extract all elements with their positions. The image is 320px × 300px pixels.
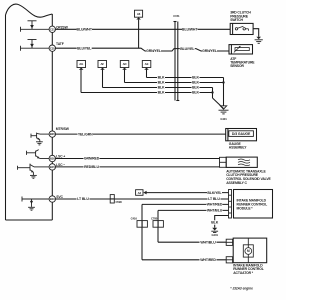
PCM left edge wire [5,15,7,220]
wire vertical ref box AE [146,69,148,77]
svg-text:C35: C35 [50,46,55,50]
svg-text:WHT/RED: WHT/RED [207,203,223,207]
junction dot row2-BLK at ground vertical [222,81,224,83]
3rd clutch pressure switch label [230,10,251,22]
ground (Q3 emitter) [30,175,37,178]
gauge assembly box [226,129,257,141]
svg-text:LSC −: LSC − [56,163,65,167]
wire diagonal to ground G101 [213,98,224,109]
svg-text:ASSEMBLY C: ASSEMBLY C [226,181,247,185]
wire BLK tap from module to G401 [215,216,229,228]
sheet reference box AF [98,61,107,70]
wire ground drop to G101 [223,78,225,106]
actuator connector pin lower [226,257,232,263]
PCM internal zener to ground (SVC) [30,199,33,207]
svg-text:AE: AE [145,62,149,66]
wire label LT BLU (right) [208,197,221,202]
wire label BLK row3 right [192,85,200,89]
svg-text:BLK: BLK [192,76,199,80]
svg-text:GRN/RED: GRN/RED [84,157,100,161]
svg-text:ACTUATOR *: ACTUATOR * [233,271,254,275]
3rd clutch pressure switch box [230,23,253,34]
svg-text:* J32A3 engine: * J32A3 engine [230,287,253,291]
svg-text:BLK: BLK [192,81,199,85]
wire label GRN/YEL (right) [202,49,218,54]
svg-text:C590: C590 [116,200,123,204]
ground G101 (solenoid grounds) [219,106,229,114]
wire label BLU/WHT (right) [182,27,198,32]
svg-text:AF: AF [100,62,104,66]
wire BLK ground row4 [81,92,213,94]
svg-text:B10: B10 [50,197,55,201]
wire 3rd clutch switch to ground [253,29,259,37]
svg-text:BLU/YEL: BLU/YEL [77,46,92,50]
wire row2 BLU/YEL segment [55,48,229,51]
wire vertical ref box AF [102,69,104,87]
wire label BLK row1 right [192,75,200,79]
intake manifold runner control module connector strip [229,190,232,219]
svg-text:BLK/YEL: BLK/YEL [207,191,222,195]
wire WHT/RED vertical drop [141,204,143,259]
svg-text:G401: G401 [212,233,219,237]
wire BLK ground row2 [125,82,224,84]
PCM terminal circle TATF [49,45,55,51]
svg-text:MODULE *: MODULE * [237,207,254,211]
wire label GRN/YEL (left) [146,49,162,54]
ground (3rd clutch pressure switch) [255,37,263,44]
svg-text:B16: B16 [50,157,55,161]
wire WHT/BLU row [158,209,229,211]
wire label RED/BLU [84,165,100,170]
A/T clutch pressure control solenoid valve C box [226,157,257,167]
ATF temperature sensor label [230,57,255,68]
solenoid connector block [220,157,227,167]
wire label WHT/BLU (bottom) [200,240,217,245]
wire label BLU/YEL (right) [180,46,196,51]
svg-text:BLU/WHT: BLU/WHT [77,27,93,31]
svg-text:TATF: TATF [56,42,64,46]
svg-text:BLU/YEL: BLU/YEL [180,47,195,51]
ground G401 (module) [211,228,218,233]
actuator connector pin upper [226,239,232,245]
wire WHT/RED bottom row to actuator [142,259,226,261]
svg-text:WHT/BLU: WHT/BLU [207,209,223,213]
wire label BLK row3 left [157,85,165,89]
intake manifold runner control module box [234,190,273,219]
actuator label [233,264,264,275]
PCM terminal circle SVC [49,196,55,202]
wire label BLK row4 left [157,90,165,94]
svg-text:C151: C151 [173,14,180,18]
PCM internal stub wire row2 [21,46,50,51]
wire BLK ground row3 [103,87,213,89]
svg-text:BLK: BLK [158,81,165,85]
wire label BLK row2 right [192,80,200,84]
wire GRN/RED LSC+ [56,158,220,160]
PCM bottom edge wire [6,219,53,221]
wire vertical ref box AG [80,69,82,92]
svg-text:BLU/WHT: BLU/WHT [182,27,198,31]
wire label WHT/RED [207,202,223,207]
svg-text:BLK: BLK [211,221,218,225]
PCM internal sensor-supply symbol row1 [28,21,37,30]
wire LT BLU from SVC [56,198,229,200]
svg-text:SENSOR: SENSOR [230,64,244,68]
svg-text:RED/BLU: RED/BLU [84,165,99,169]
svg-text:YEL/GRN: YEL/GRN [78,132,93,136]
wire WHT/BLU bottom row to actuator [158,241,226,243]
wire BLK ground row1 [147,77,224,79]
svg-text:WHT/BLU: WHT/BLU [200,241,216,245]
PCM terminal circle LSC- [49,164,55,170]
wire label BLK (module ground tap) [211,220,219,224]
wire vertical ref box A6 to BLU/YEL row [138,20,140,49]
svg-text:A3: A3 [138,191,142,195]
svg-text:OP2SW: OP2SW [56,26,69,30]
svg-text:B20: B20 [50,132,55,136]
transistor Q2 (LSC+ driver) [27,150,50,159]
solenoid valve label [226,169,271,185]
wire WHT/RED row [142,203,229,205]
svg-text:D/3 GAUGE: D/3 GAUGE [232,132,251,136]
connector C151 double line [174,22,180,101]
wire label BLU/YEL (left) [77,46,93,51]
svg-text:GRN/YEL: GRN/YEL [146,49,162,53]
svg-text:BLK: BLK [158,86,165,90]
transistor Q1 (MTR/SW driver) [31,133,49,142]
PCM terminal circle LSC+ [49,155,55,161]
motor M symbol [243,238,253,263]
svg-text:SVC: SVC [56,195,63,199]
wire label BLK row4 right [192,90,200,94]
wire label WHT/RED (bottom) [200,258,217,263]
wire row1 BLU/WHT to 3rd clutch pressure switch [56,28,231,30]
wire label WHT/BLU [207,208,223,213]
PCM internal sensor-supply symbol row2 [28,40,37,49]
svg-text:ASSEMBLY: ASSEMBLY [229,146,247,150]
sheet reference box A3 with left arrow [136,190,147,196]
wire drop row3-row4 join [212,88,214,99]
PCM torn-top wavy edge [6,4,53,17]
D/3 gauge inner box [229,131,254,137]
sheet reference box AD [120,61,129,70]
wire label LT BLU (left) [77,197,90,202]
svg-text:LSC +: LSC + [56,155,65,159]
wire WHT/BLU vertical drop [157,210,159,242]
inline connector C416 [137,221,147,228]
svg-text:BLK: BLK [192,91,199,95]
svg-text:G101: G101 [220,117,227,121]
wire label BLU/WHT (left) [77,27,93,32]
solenoid coil [238,159,250,166]
transistor Q3 (LSC- driver) [18,164,50,176]
svg-text:M: M [247,249,250,253]
svg-text:BLK: BLK [158,91,165,95]
wire label YEL/GRN [78,132,94,137]
svg-text:C416: C416 [131,217,138,221]
svg-text:C31: C31 [50,27,55,31]
junction dot row3-row4 BLK join [211,91,213,93]
wire label GRN/RED [84,156,100,161]
svg-text:MTR/SW: MTR/SW [56,127,70,131]
PCM terminal circle MTR/SW [49,131,55,137]
ground (Q1 emitter) [36,142,43,145]
svg-text:WHT/RED: WHT/RED [200,258,216,262]
svg-text:A6: A6 [137,12,141,16]
svg-text:LT BLU: LT BLU [77,197,89,201]
wire BLK/YEL row [146,192,228,194]
pressure switch contacts [235,26,248,31]
svg-text:AD: AD [123,62,127,66]
sheet reference box A6 [135,10,143,19]
intake manifold runner control actuator box [233,238,267,263]
svg-text:BLK: BLK [192,86,199,90]
wire label BLK/YEL [207,190,223,195]
gauge assembly label [229,142,247,150]
PCM internal stub wire SVC row [22,197,49,202]
svg-text:C780: C780 [151,217,158,221]
thermistor symbol [234,46,249,53]
sheet reference box AG [77,61,86,70]
svg-text:AG: AG [79,62,83,66]
PCM internal stub wire row1 [21,27,50,32]
wire label BLK row1 left [157,75,165,79]
svg-text:BLK: BLK [158,76,165,80]
PCM terminal circle OP2SW [49,26,55,32]
module label [237,199,268,211]
ground (SVC internal) [28,207,35,210]
PCM right bus wire [51,14,53,220]
svg-text:GRN/YEL: GRN/YEL [202,49,218,53]
ATF temperature sensor box [229,45,253,54]
wire YEL/GRN to gauge assembly [56,133,226,135]
wire RED/BLU LSC- [56,166,220,168]
svg-text:LT BLU: LT BLU [208,197,220,201]
inline connector C590 [110,195,114,203]
wire label BLK row2 left [157,80,165,84]
svg-text:B15: B15 [50,165,55,169]
inline connector C780 [153,221,163,228]
wire vertical ref box AD [124,69,126,82]
svg-text:SWITCH: SWITCH [230,18,243,22]
sheet reference box AE [142,61,151,70]
